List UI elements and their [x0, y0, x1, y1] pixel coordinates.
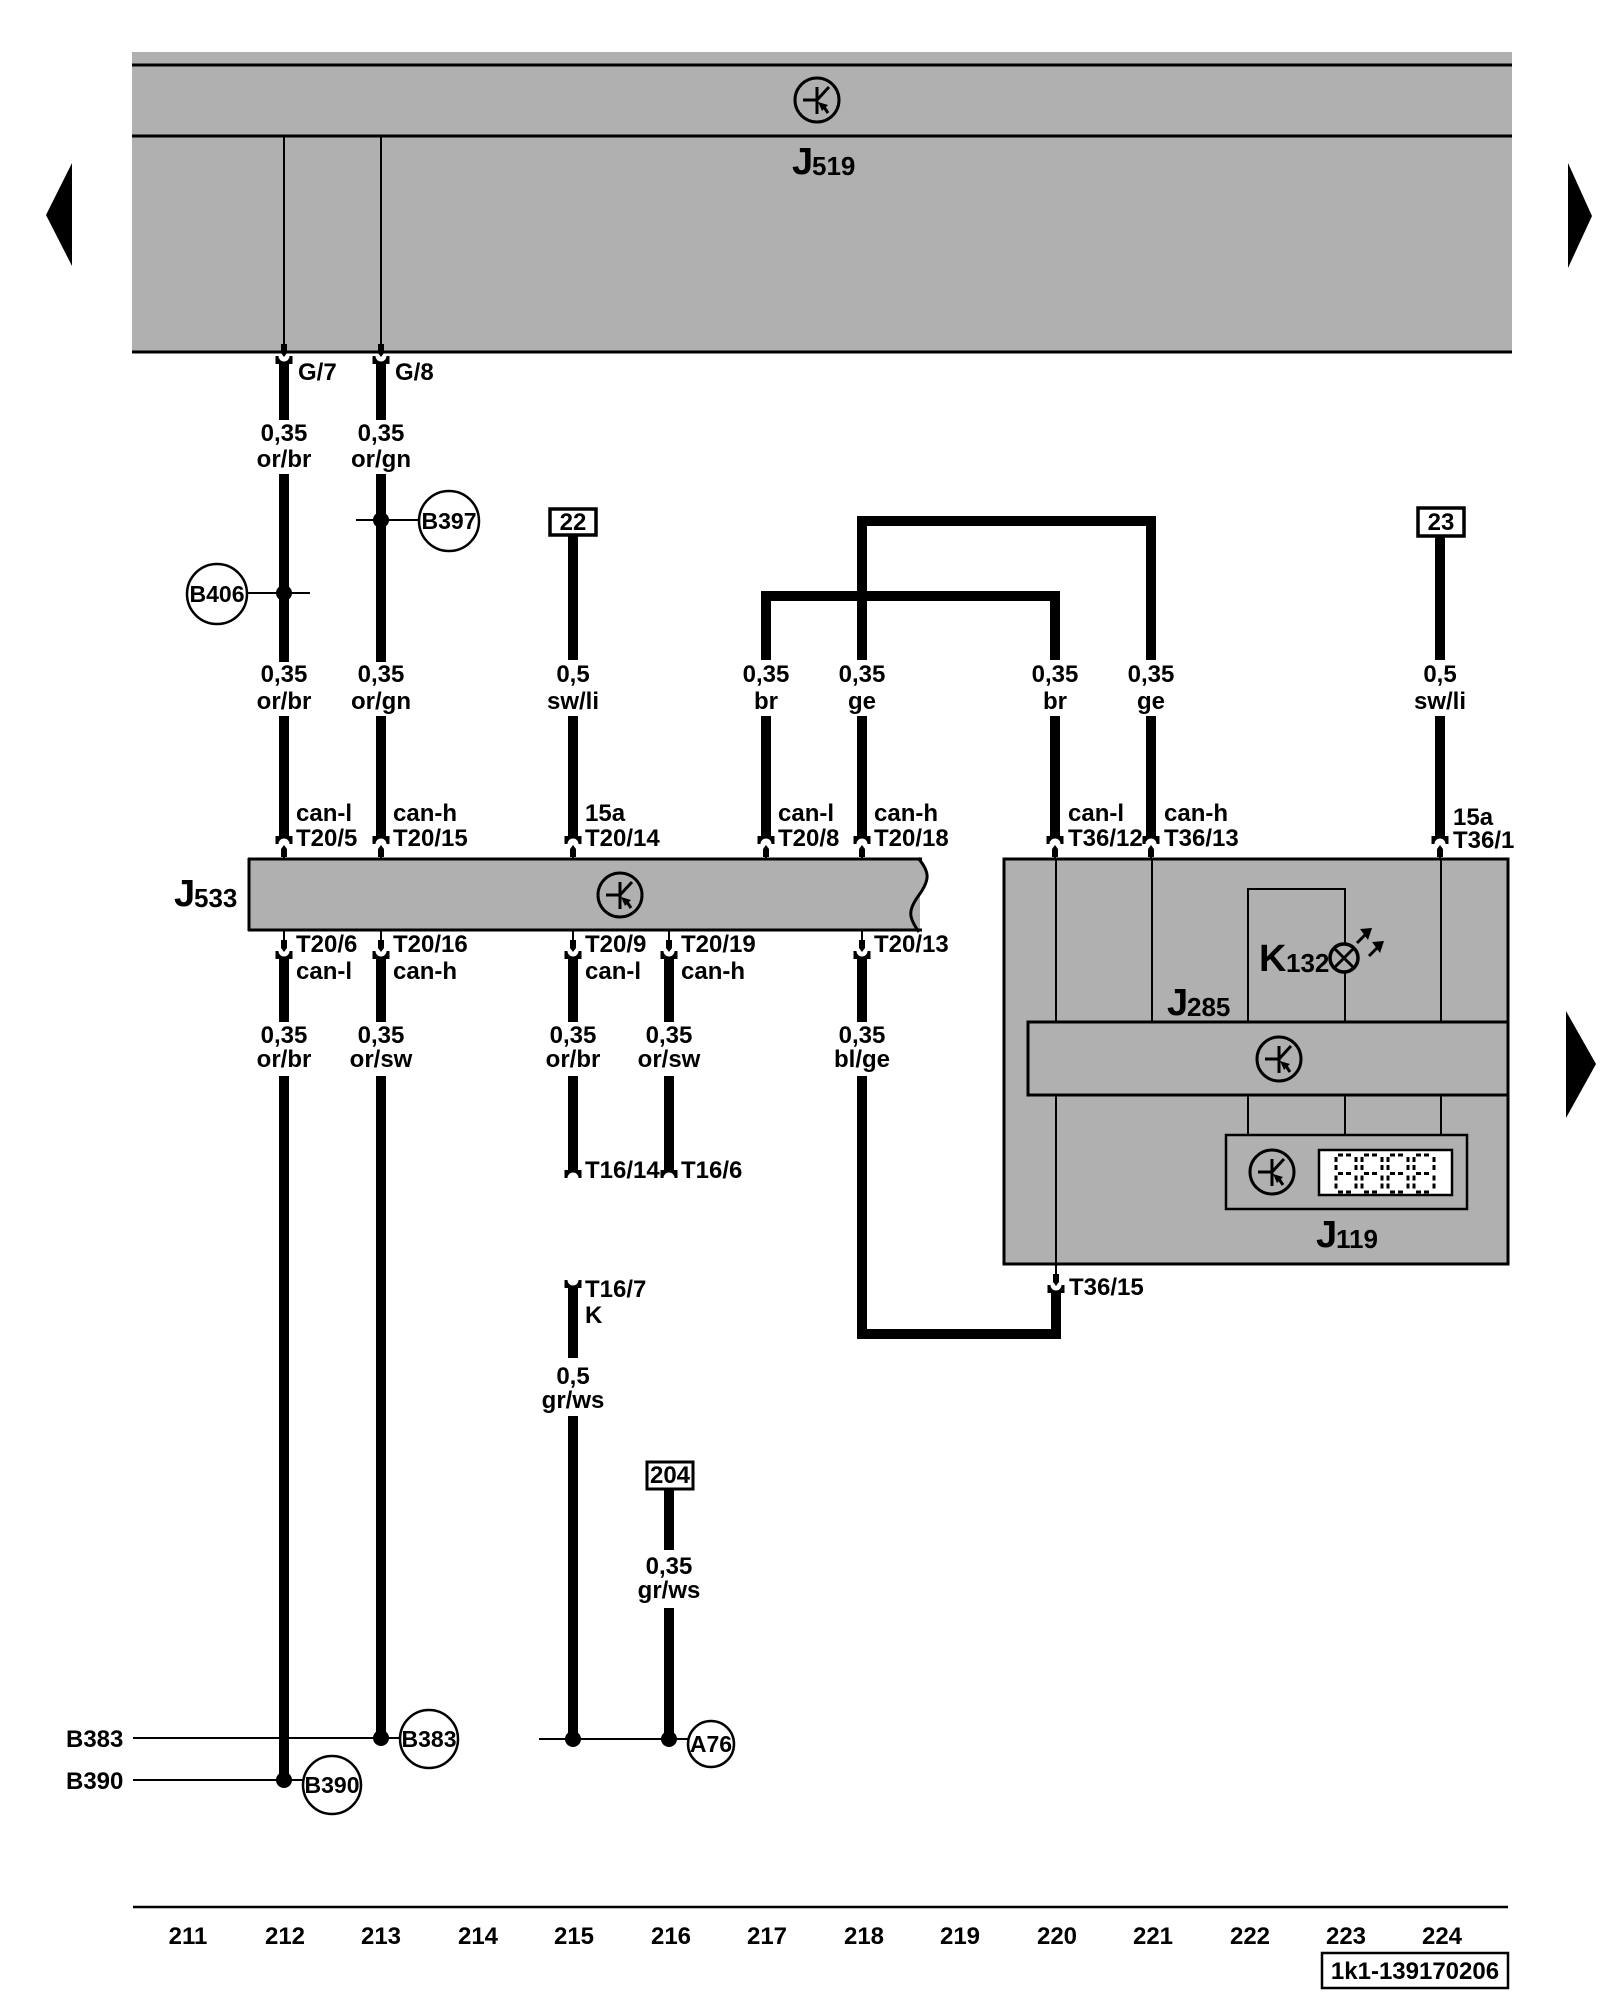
- svg-text:15a: 15a: [585, 800, 626, 827]
- connection A76 circle: [688, 1721, 734, 1767]
- wire br vertical segment col 217: [743, 596, 790, 715]
- svg-text:can-l: can-l: [778, 800, 834, 827]
- connection B383 circle: [400, 1710, 458, 1768]
- wire 0,35 or/br upper segment: [257, 364, 312, 473]
- left continuation arrow: [46, 163, 72, 266]
- control unit J519 box: [132, 52, 1512, 353]
- svg-text:224: 224: [1422, 1923, 1463, 1950]
- svg-text:0,35: 0,35: [839, 1022, 886, 1049]
- junction B406 dot: [276, 585, 292, 601]
- svg-text:0,35: 0,35: [646, 1553, 693, 1580]
- svg-text:23: 23: [1428, 509, 1455, 536]
- svg-text:T16/6: T16/6: [681, 1157, 742, 1184]
- K-symbol in J519: [795, 78, 839, 122]
- wire G/7 inside J519: [283, 137, 285, 345]
- internal wire from T36/13 to J285: [1151, 859, 1153, 1022]
- svg-text:B383: B383: [66, 1726, 123, 1753]
- svg-text:G/7: G/7: [298, 359, 337, 386]
- wire 0,35 or/gn upper segment: [351, 364, 411, 473]
- svg-text:can-l: can-l: [585, 958, 641, 985]
- pin T20/5 on J533: [276, 800, 358, 859]
- wire or/gn lower segment to J533: [376, 716, 386, 836]
- svg-text:0,35: 0,35: [1032, 661, 1079, 688]
- svg-text:533: 533: [194, 883, 237, 913]
- wire col 216 to T16/6: [664, 1076, 674, 1170]
- control unit J533 bar: [248, 858, 927, 932]
- svg-text:or/sw: or/sw: [350, 1046, 413, 1073]
- wire ge vertical col 221: [1128, 521, 1175, 715]
- svg-text:217: 217: [747, 1923, 787, 1950]
- pin G/8 on J519: [373, 344, 434, 386]
- svg-text:T20/13: T20/13: [874, 931, 949, 958]
- wire 0,35 gr/ws upper segment col 216: [638, 1489, 701, 1604]
- internal wire from T36/12 to J285: [1055, 859, 1057, 1022]
- pin T20/6 on J533: [276, 930, 358, 985]
- svg-text:0,35: 0,35: [358, 420, 405, 447]
- wire col 215 to T16/14: [568, 1076, 578, 1170]
- svg-text:br: br: [1043, 688, 1067, 715]
- connection line B390: [133, 1779, 303, 1781]
- svg-text:can-l: can-l: [296, 958, 352, 985]
- svg-text:T20/6: T20/6: [296, 931, 357, 958]
- svg-text:0,35: 0,35: [743, 661, 790, 688]
- svg-text:0,35: 0,35: [358, 1022, 405, 1049]
- lamp circuit loop for K132: [1247, 888, 1345, 1022]
- svg-text:132: 132: [1286, 948, 1329, 978]
- svg-text:T36/1: T36/1: [1453, 827, 1514, 854]
- svg-text:B406: B406: [190, 581, 245, 607]
- svg-text:can-h: can-h: [393, 958, 457, 985]
- wire or/br middle segment: [279, 474, 289, 662]
- warning lamp K132 LED symbol: [1330, 928, 1384, 972]
- svg-text:214: 214: [458, 1923, 499, 1950]
- wire 0,5 sw/li upper segment col 224: [1414, 536, 1466, 715]
- wire bl/ge rising segment to T36/15: [1051, 1291, 1061, 1334]
- wire bl/ge long segment: [857, 1076, 867, 1339]
- svg-text:or/br: or/br: [257, 688, 312, 715]
- svg-text:0,35: 0,35: [261, 1022, 308, 1049]
- wire G/8 inside J519: [380, 137, 382, 345]
- svg-text:222: 222: [1230, 1923, 1270, 1950]
- K-symbol in J533: [598, 873, 642, 917]
- svg-text:or/br: or/br: [257, 1046, 312, 1073]
- wire or/gn middle segment: [376, 474, 386, 662]
- pin T20/18 on J533: [854, 800, 949, 859]
- wire or/sw long segment to B383: [376, 1076, 386, 1738]
- pin T20/16 on J533: [373, 930, 468, 985]
- svg-text:T16/7: T16/7: [585, 1276, 646, 1303]
- wire gr/ws lower segment to A76 junction: [568, 1416, 578, 1739]
- wire br lower segment to J533: [761, 716, 771, 836]
- svg-text:ge: ge: [1137, 688, 1165, 715]
- wire bl/ge below J533 col 218: [834, 957, 890, 1073]
- svg-text:215: 215: [554, 1923, 594, 1950]
- svg-text:212: 212: [265, 1923, 305, 1950]
- svg-text:219: 219: [940, 1923, 980, 1950]
- junction B397 dot: [373, 512, 389, 528]
- svg-text:220: 220: [1037, 1923, 1077, 1950]
- svg-text:or/br: or/br: [257, 446, 312, 473]
- current track ruler line: [133, 1906, 1508, 1909]
- svg-text:0,5: 0,5: [556, 1363, 589, 1390]
- svg-text:T20/15: T20/15: [393, 825, 468, 852]
- wire 0,35 br elbow to T36/12 column: [761, 591, 1060, 601]
- svg-text:J: J: [1316, 1214, 1337, 1256]
- K-symbol in J285: [1257, 1037, 1301, 1081]
- svg-text:T36/15: T36/15: [1069, 1274, 1144, 1301]
- display digit 1: [1336, 1155, 1356, 1192]
- svg-text:br: br: [754, 688, 778, 715]
- wire bl/ge bottom elbow: [857, 1329, 1061, 1339]
- pin T16/7: [565, 1276, 647, 1329]
- pin T16/6: [661, 1157, 743, 1184]
- wire or/sw below J533 col 213: [350, 957, 413, 1073]
- label J533: [174, 873, 237, 915]
- wire 0,35 ge elbow to T36/13 column: [857, 516, 1156, 526]
- svg-text:J: J: [1167, 982, 1188, 1024]
- svg-text:223: 223: [1326, 1923, 1366, 1950]
- svg-text:0,35: 0,35: [261, 420, 308, 447]
- svg-text:285: 285: [1187, 992, 1230, 1022]
- svg-text:B383: B383: [402, 1726, 457, 1752]
- wire br vertical col 220: [1032, 596, 1079, 715]
- svg-text:can-l: can-l: [1068, 800, 1124, 827]
- svg-text:0,5: 0,5: [556, 661, 589, 688]
- connection line A76: [539, 1738, 688, 1740]
- svg-text:or/gn: or/gn: [351, 446, 411, 473]
- svg-text:0,35: 0,35: [550, 1022, 597, 1049]
- pin T36/13: [1143, 800, 1239, 859]
- wire or/br below J533 col 215: [546, 957, 601, 1073]
- wire gr/ws lower segment col 216 to A76 junction: [664, 1608, 674, 1739]
- svg-text:can-l: can-l: [296, 800, 352, 827]
- svg-text:T20/9: T20/9: [585, 931, 646, 958]
- svg-text:K: K: [585, 1302, 603, 1329]
- junction dot col 216 on A76 line: [661, 1731, 677, 1747]
- display digit 4: [1414, 1155, 1434, 1192]
- svg-text:gr/ws: gr/ws: [638, 1577, 701, 1604]
- wire or/br below J533 col 212: [257, 957, 312, 1073]
- svg-text:216: 216: [651, 1923, 691, 1950]
- pin T20/19 on J533: [661, 930, 756, 985]
- connection B406: [187, 564, 310, 624]
- svg-text:1k1-139170206: 1k1-139170206: [1331, 1958, 1499, 1985]
- svg-text:0,35: 0,35: [358, 661, 405, 688]
- display digit 2: [1362, 1155, 1382, 1192]
- svg-text:T36/13: T36/13: [1164, 825, 1239, 852]
- K-symbol in J119: [1250, 1150, 1294, 1194]
- pin T36/12: [1047, 800, 1143, 859]
- internal wire from J285 to T36/15: [1055, 1095, 1057, 1264]
- svg-text:can-h: can-h: [874, 800, 938, 827]
- wire sw/li lower segment to J533: [568, 716, 578, 836]
- svg-text:or/gn: or/gn: [351, 688, 411, 715]
- svg-text:T20/19: T20/19: [681, 931, 756, 958]
- terminal box 204: [647, 1462, 693, 1489]
- junction B383 dot: [373, 1730, 389, 1746]
- svg-text:T36/12: T36/12: [1068, 825, 1143, 852]
- pin T20/9 on J533: [565, 930, 647, 985]
- wire sw/li lower segment col 224: [1435, 716, 1445, 836]
- svg-text:0,35: 0,35: [1128, 661, 1175, 688]
- svg-text:T20/18: T20/18: [874, 825, 949, 852]
- internal wire from T36/1 to J285: [1440, 859, 1442, 1022]
- svg-text:0,5: 0,5: [1423, 661, 1456, 688]
- junction dot col 215 on A76 line: [565, 1731, 581, 1747]
- wire or/br label row B: [257, 661, 312, 715]
- wire br lower segment col 220: [1050, 716, 1060, 836]
- instrument cluster block outline: [1004, 859, 1508, 1264]
- middle right continuation arrow: [1566, 1011, 1596, 1118]
- current track numbers: [169, 1923, 1463, 1950]
- display digit 3: [1388, 1155, 1408, 1192]
- svg-text:J: J: [174, 873, 195, 915]
- wire 0,5 sw/li upper segment: [547, 535, 599, 715]
- svg-text:B397: B397: [422, 508, 477, 534]
- svg-text:218: 218: [844, 1923, 884, 1950]
- label J119: [1316, 1214, 1378, 1256]
- pin G/7 on J519: [276, 344, 337, 386]
- svg-text:G/8: G/8: [395, 359, 434, 386]
- svg-text:sw/li: sw/li: [1414, 688, 1466, 715]
- connection B390 circle: [303, 1756, 361, 1814]
- svg-text:B390: B390: [305, 1772, 360, 1798]
- svg-text:or/br: or/br: [546, 1046, 601, 1073]
- svg-text:T16/14: T16/14: [585, 1157, 660, 1184]
- connection line B383: [133, 1737, 400, 1739]
- control unit J285 bar: [1028, 1022, 1508, 1095]
- pin T20/13 on J533: [854, 930, 949, 959]
- wire or/br lower segment to J533: [279, 716, 289, 836]
- pin T20/8 on J533: [758, 800, 840, 859]
- svg-text:22: 22: [560, 509, 587, 536]
- svg-text:K: K: [1259, 938, 1287, 980]
- svg-text:gr/ws: gr/ws: [542, 1387, 605, 1414]
- label K132: [1259, 938, 1329, 980]
- internal wires from J285 down to J119: [1248, 1095, 1441, 1135]
- pin T20/14 on J533: [565, 800, 661, 859]
- svg-text:J: J: [792, 141, 813, 183]
- svg-text:0,35: 0,35: [646, 1022, 693, 1049]
- pin T36/1: [1432, 804, 1515, 859]
- svg-text:213: 213: [361, 1923, 401, 1950]
- svg-text:0,35: 0,35: [261, 661, 308, 688]
- top right continuation arrow: [1568, 163, 1592, 268]
- svg-text:211: 211: [169, 1923, 208, 1950]
- svg-text:T20/8: T20/8: [778, 825, 839, 852]
- pin T20/15 on J533: [373, 800, 468, 859]
- svg-text:221: 221: [1133, 1923, 1173, 1950]
- svg-text:T20/14: T20/14: [585, 825, 660, 852]
- svg-text:B390: B390: [66, 1768, 123, 1795]
- label J285: [1167, 982, 1230, 1024]
- svg-text:or/sw: or/sw: [638, 1046, 701, 1073]
- junction B390 dot: [276, 1772, 292, 1788]
- svg-text:119: 119: [1336, 1224, 1378, 1254]
- wire 0,5 gr/ws upper segment: [542, 1288, 605, 1414]
- label J519: [792, 141, 855, 183]
- J119 digital display window: [1319, 1150, 1452, 1195]
- svg-text:can-h: can-h: [1164, 800, 1228, 827]
- pin T16/14: [565, 1157, 661, 1184]
- svg-text:can-h: can-h: [393, 800, 457, 827]
- pin T36/15 below block: [1048, 1264, 1144, 1301]
- wire ge vertical segment col 218: [839, 521, 886, 715]
- svg-text:A76: A76: [690, 1731, 732, 1757]
- svg-text:0,35: 0,35: [839, 661, 886, 688]
- svg-text:can-h: can-h: [681, 958, 745, 985]
- wire or/br long segment to B390: [279, 1076, 289, 1780]
- wire ge lower segment col 221: [1146, 716, 1156, 836]
- svg-text:ge: ge: [848, 688, 876, 715]
- svg-text:519: 519: [812, 151, 855, 181]
- display unit J119 box: [1226, 1135, 1467, 1209]
- svg-text:204: 204: [650, 1462, 691, 1489]
- svg-text:T20/5: T20/5: [296, 825, 357, 852]
- connection B397: [356, 491, 479, 551]
- diagram id box 1k1-139170206: [1322, 1953, 1508, 1988]
- wire ge lower segment to J533: [857, 716, 867, 836]
- wire or/gn label row B: [351, 661, 411, 715]
- svg-text:sw/li: sw/li: [547, 688, 599, 715]
- terminal box 23: [1418, 508, 1464, 536]
- svg-text:bl/ge: bl/ge: [834, 1046, 890, 1073]
- wire or/sw below J533 col 216: [638, 957, 701, 1073]
- svg-text:T20/16: T20/16: [393, 931, 468, 958]
- terminal box 22: [550, 509, 596, 536]
